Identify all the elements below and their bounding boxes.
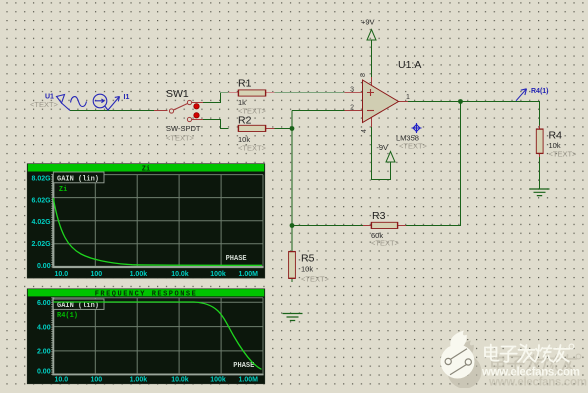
svg-text:PHASE: PHASE [233,362,254,370]
svg-text:100: 100 [91,376,103,383]
svg-text:100k: 100k [210,376,226,383]
svg-text:PHASE: PHASE [226,255,247,263]
svg-text:<TEXT>: <TEXT> [166,134,195,143]
svg-text:10.0k: 10.0k [171,271,189,278]
svg-text:FREQUENCY RESPONSE: FREQUENCY RESPONSE [95,290,198,298]
svg-text:4.00: 4.00 [37,324,51,331]
svg-text:10.0: 10.0 [55,271,69,278]
svg-text:Zi: Zi [142,165,150,173]
svg-text:U1:A: U1:A [398,59,421,71]
svg-text:1.00M: 1.00M [239,376,259,383]
svg-text:+9V: +9V [361,18,375,27]
svg-text:R4: R4 [549,130,563,142]
svg-text:4: 4 [361,129,368,133]
svg-text:10.0k: 10.0k [171,376,189,383]
svg-text:I1: I1 [124,94,130,101]
svg-text:2: 2 [350,105,354,112]
svg-text:R4(1): R4(1) [531,88,549,95]
svg-text:GAIN (lin): GAIN (lin) [57,302,99,310]
svg-text:<TEXT>: <TEXT> [549,150,578,159]
svg-text:10.0: 10.0 [55,376,69,383]
svg-text:<TEXT>: <TEXT> [399,142,428,151]
svg-text:SW-SPDT: SW-SPDT [166,124,201,133]
svg-text:2.02G: 2.02G [32,241,52,248]
svg-text:<TEXT>: <TEXT> [238,144,267,153]
svg-text:R2: R2 [238,115,252,127]
svg-text:1: 1 [406,94,410,101]
svg-text:100: 100 [91,271,103,278]
svg-text:100k: 100k [210,271,226,278]
svg-text:R5: R5 [301,253,315,265]
svg-text:0.00: 0.00 [37,263,51,270]
svg-text:<TEXT>: <TEXT> [371,239,400,248]
svg-text:R1: R1 [238,78,252,90]
svg-text:SW1: SW1 [166,88,189,100]
svg-text:2.00: 2.00 [37,349,51,356]
svg-text:Zi: Zi [59,186,67,194]
svg-text:4.02G: 4.02G [32,219,52,226]
svg-text:<TEXT>: <TEXT> [30,100,59,109]
svg-text:1.00M: 1.00M [239,271,259,278]
svg-text:10k: 10k [301,265,313,274]
svg-text:R3: R3 [372,210,386,222]
svg-text:GAIN (lin): GAIN (lin) [57,175,99,183]
svg-text:1.00k: 1.00k [130,271,148,278]
svg-text:-9V: -9V [376,143,388,152]
svg-text:<TEXT>: <TEXT> [301,275,330,284]
svg-text:8.02G: 8.02G [32,176,52,183]
svg-text:0.00: 0.00 [37,369,51,376]
svg-text:6.02G: 6.02G [32,197,52,204]
svg-text:R4(1): R4(1) [57,312,78,320]
svg-text:6.00: 6.00 [37,300,51,307]
svg-text:1.00k: 1.00k [130,376,148,383]
svg-text:3: 3 [350,87,354,94]
svg-text:8: 8 [360,73,367,77]
